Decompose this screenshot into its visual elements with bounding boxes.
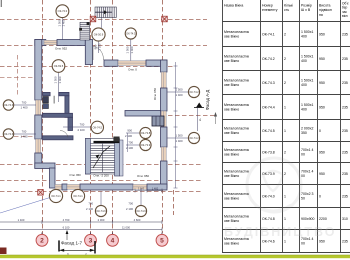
svg-text:5: 5 [160,238,164,245]
svg-text:2 100: 2 100 [86,207,93,211]
svg-text:1 400: 1 400 [130,46,134,53]
svg-text:1: 1 [284,239,286,243]
svg-text:Фасад 1-7: Фасад 1-7 [61,240,83,245]
svg-text:2 100: 2 100 [98,43,102,50]
svg-text:ОК-74.6: ОК-74.6 [4,103,14,107]
interior wall wc2 right [68,117,73,130]
svg-text:Отм. 950: Отм. 950 [137,174,149,178]
svg-text:ове Вікно: ове Вікно [224,197,239,201]
svg-text:4: 4 [199,118,201,122]
svg-text:950: 950 [319,150,325,154]
svg-text:700х1 4: 700х1 4 [301,170,314,174]
svg-text:11 000: 11 000 [122,225,131,229]
svg-text:ОК-74.8: ОК-74.8 [262,217,275,221]
lower-left vertical wall [50,168,56,188]
interior wall wc door-left [43,92,50,95]
svg-text:4: 4 [111,238,115,245]
svg-text:310: 310 [342,217,348,221]
svg-text:1: 1 [284,129,286,133]
bottom wall right [147,184,167,190]
column marker bottom-left [38,190,44,196]
stair arrow [93,152,103,168]
window bottom 1b [67,185,80,190]
svg-text:1 500: 1 500 [176,134,183,138]
svg-text:Кількі: Кількі [284,4,293,8]
svg-text:2: 2 [284,150,286,154]
partial grid line [17,55,19,95]
svg-text:950: 950 [319,239,325,243]
svg-text:700: 700 [80,123,85,127]
svg-text:00: 00 [301,153,305,157]
lower-left corner wall [35,163,55,169]
svg-text:ОК-74.2: ОК-74.2 [189,90,199,94]
svg-text:ОК-74.6: ОК-74.6 [96,209,106,213]
top wall left segment [57,40,85,46]
svg-text:900х900: 900х900 [301,217,314,221]
short dashed vertical [173,190,175,215]
svg-text:ня: ня [319,13,323,17]
svg-text:235: 235 [342,81,348,85]
window tag T4 [52,60,65,73]
window tag T6 [3,129,13,139]
svg-text:вікн: вікн [342,14,348,18]
svg-text:ОК-74.0: ОК-74.0 [262,194,275,198]
svg-text:ове Вікно: ове Вікно [224,83,239,87]
svg-text:6 100: 6 100 [63,225,70,229]
svg-text:2 000х2: 2 000х2 [301,127,314,131]
window tag T5 [3,100,13,110]
svg-text:Висота: Висота [319,4,331,8]
top-left corner wall [35,40,46,46]
leader texts [21,19,183,211]
svg-text:елементу: елементу [262,8,278,12]
svg-text:950: 950 [319,172,325,176]
svg-text:700: 700 [128,202,133,206]
svg-text:Металопластик: Металопластик [224,192,250,196]
svg-text:1: 1 [284,194,286,198]
door swing wc [60,130,68,137]
window tag T15 [135,205,146,216]
svg-text:1: 1 [284,105,286,109]
top-mid wall segment a [104,60,118,66]
interior wall wc top [43,113,73,117]
svg-text:ове Вікно: ове Вікно [224,108,239,112]
column marker top-mid [90,16,96,22]
bottom wall pier [62,184,67,190]
svg-text:700х1 4: 700х1 4 [301,148,314,152]
svg-text:1 500: 1 500 [53,76,57,83]
svg-text:2 100: 2 100 [126,146,133,150]
interior wall wc right [65,96,69,118]
leader T6 [14,133,37,135]
svg-text:2200: 2200 [319,217,327,221]
svg-text:Отм. -2 200: Отм. -2 200 [93,174,109,178]
leader T4 [58,72,60,102]
svg-text:ОК-74.3: ОК-74.3 [58,9,68,13]
svg-text:0: 0 [319,129,321,133]
grid line axis 3 [90,0,92,234]
svg-text:235: 235 [342,172,348,176]
window tag T9 [140,139,151,150]
svg-text:ОК-74.9: ОК-74.9 [136,209,146,213]
svg-text:ОК-74.6: ОК-74.6 [262,239,275,243]
leader T9 [126,144,140,146]
svg-text:2 100: 2 100 [126,207,133,211]
stair rail line [101,18,103,29]
watermark emblem [247,158,301,212]
svg-text:підвікон: підвікон [319,8,332,12]
window tag T10 [188,86,199,97]
leader T10 [167,91,189,93]
svg-text:Металопластик: Металопластик [224,30,250,34]
svg-text:235: 235 [342,150,348,154]
svg-text:1 400: 1 400 [21,135,28,139]
leader T2 [98,41,100,53]
svg-text:350: 350 [301,131,307,135]
svg-text:2: 2 [40,238,44,245]
wc fixtures [43,97,49,104]
svg-text:ОК-74.2: ОК-74.2 [189,136,199,140]
door leaf wc [53,96,55,104]
svg-text:Металопластик: Металопластик [224,215,250,219]
svg-text:1 400: 1 400 [18,218,25,222]
window top-mid [118,61,146,66]
svg-text:2 100: 2 100 [78,128,85,132]
window tag T1 [56,5,69,18]
grid line axis 2 [42,0,44,234]
svg-text:ове Вікно: ове Вікно [224,35,239,39]
svg-text:1 400: 1 400 [58,76,62,83]
svg-text:400: 400 [301,35,307,39]
svg-text:ОК-74.3: ОК-74.3 [262,81,275,85]
door swing hall [93,47,104,61]
grid line row A [0,19,207,21]
svg-text:950: 950 [319,81,325,85]
leader T15 [140,188,142,206]
window top-left W1 [44,40,57,44]
svg-text:400: 400 [301,59,307,63]
svg-text:ОК-73.9: ОК-73.9 [141,143,151,147]
svg-text:235: 235 [342,32,348,36]
svg-text:50: 50 [301,197,305,201]
svg-text:1 500х1: 1 500х1 [301,103,314,107]
stair flight top (porch) [95,7,116,18]
svg-text:700х2 3: 700х2 3 [301,192,314,196]
corner mark [0,248,7,255]
svg-text:2: 2 [284,81,286,85]
svg-text:ОК-74.5: ОК-74.5 [93,125,103,129]
grid axis lines [0,0,215,234]
flue block [152,116,164,126]
svg-text:950: 950 [319,105,325,109]
leader T11 [167,137,189,139]
svg-text:700: 700 [128,141,133,145]
diagonal leader [0,198,50,214]
svg-text:ОК-74.5: ОК-74.5 [262,129,275,133]
svg-text:1 400: 1 400 [62,19,66,26]
window tag T14 [95,205,106,216]
svg-text:1 500х1: 1 500х1 [301,30,314,34]
left wall seg1 [35,40,42,101]
grid line partial [0,136,35,138]
grid line row B [0,45,207,47]
right wall seg4 [161,161,168,188]
svg-text:ове Вікно: ове Вікно [224,131,239,135]
bottom dimension lines [0,220,162,237]
svg-text:Ш х В: Ш х В [301,8,311,12]
grid line axis 5 [162,0,164,233]
svg-text:4 700: 4 700 [63,218,70,222]
window tag T11 [188,132,199,143]
window tag T13 [71,189,84,202]
svg-text:900: 900 [93,44,97,49]
svg-text:Отм. 950: Отм. 950 [69,173,81,177]
left wall seg3 [35,153,42,168]
svg-text:00: 00 [301,242,305,246]
svg-text:950: 950 [319,32,325,36]
column marker top-right [162,16,168,22]
svg-text:1 500х1: 1 500х1 [301,55,314,59]
svg-text:Металопластик: Металопластик [224,127,250,131]
svg-text:Отм. 950: Отм. 950 [153,88,157,100]
svg-text:Металопластик: Металопластик [224,55,250,59]
small dim line bottom-right [135,189,162,193]
svg-text:400: 400 [301,108,307,112]
right wall seg3 [161,127,168,147]
svg-text:ОК-50.9: ОК-50.9 [94,32,104,36]
bottom wall mid [80,184,133,190]
svg-text:2 100: 2 100 [125,134,132,138]
svg-text:900: 900 [127,129,132,133]
stair top black edge [94,141,120,143]
svg-text:ове Вікно: ове Вікно [224,242,239,246]
grid line row F [0,180,202,182]
svg-text:235: 235 [342,239,348,243]
window tag T2 [92,28,105,41]
leader T8 [126,132,140,134]
grid line row C [0,66,175,68]
svg-text:3: 3 [89,238,93,245]
interior wall wc bottom [43,136,74,140]
window right 2 [161,111,166,127]
window left 2 [36,139,41,153]
window tag T8 [140,127,151,138]
svg-text:Отм. 0: Отм. 0 [128,68,137,72]
svg-text:700: 700 [22,101,27,105]
svg-text:235: 235 [342,129,348,133]
green separator bar [0,255,350,258]
svg-text:1 400: 1 400 [21,106,28,110]
svg-text:ОК-74.5: ОК-74.5 [126,31,136,35]
leader T5 [14,104,37,106]
svg-text:ове Вікно: ове Вікно [224,174,239,178]
grid line row D [140,115,215,117]
svg-text:сть: сть [284,8,289,12]
svg-text:Металопластик: Металопластик [224,103,250,107]
svg-text:1 500х1: 1 500х1 [301,79,314,83]
svg-text:ОК-73.8: ОК-73.8 [141,131,151,135]
right wall seg2 [161,88,168,111]
svg-text:Металопластик: Металопластик [224,148,250,152]
svg-text:ОК-74.6: ОК-74.6 [4,132,14,136]
window bottom 2 [133,185,147,190]
svg-text:2: 2 [284,172,286,176]
svg-text:1 400: 1 400 [176,93,183,97]
svg-text:ОК-74.1: ОК-74.1 [73,194,83,198]
vertical wall at stair hall [85,40,92,65]
svg-text:4 600: 4 600 [134,218,141,222]
grid line axis 4 [112,0,114,234]
svg-text:ОК-73.8: ОК-73.8 [262,150,275,154]
svg-text:Фасад А-Д: Фасад А-Д [205,90,210,111]
svg-text:235: 235 [342,105,348,109]
svg-text:Розмір: Розмір [301,4,312,8]
svg-text:235: 235 [342,194,348,198]
svg-text:ОК-69.5: ОК-69.5 [54,64,64,68]
svg-text:700: 700 [22,130,27,134]
leader T1 [61,18,63,40]
svg-text:00: 00 [301,174,305,178]
svg-text:0: 0 [319,194,321,198]
window schedule table [222,0,350,253]
svg-text:ове Вікно: ове Вікно [224,219,239,223]
grid line row E [0,164,202,166]
svg-text:Металопластик: Металопластик [224,170,250,174]
svg-text:ОК-74.2: ОК-74.2 [262,57,275,61]
leader T7 [63,126,91,128]
svg-text:1 100: 1 100 [138,187,145,190]
svg-text:ове Вікно: ове Вікно [224,59,239,63]
svg-text:1 500: 1 500 [126,46,130,53]
window tag T7 [91,121,103,133]
svg-text:950: 950 [319,57,325,61]
left wall seg2 [35,115,42,139]
window right 3 [161,147,166,161]
window left 1 [36,100,41,115]
svg-text:235: 235 [342,57,348,61]
svg-text:700: 700 [88,202,93,206]
svg-text:2: 2 [284,57,286,61]
interior wall wc door-right [59,92,69,95]
window bottom 1a [55,185,62,190]
svg-text:Металопластик: Металопластик [224,79,250,83]
svg-text:Номер: Номер [262,4,273,8]
top-left tick [0,0,2,7]
svg-text:2: 2 [284,32,286,36]
svg-text:БУДІВНИЦТВО: БУДІВНИЦТВО [224,225,336,239]
right dim chain [128,62,178,188]
svg-text:ОК-74.4: ОК-74.4 [262,105,275,109]
grid line partial 2 [0,77,35,79]
main staircase [85,137,123,177]
svg-text:2 300: 2 300 [98,218,105,222]
svg-text:ове Вікно: ове Вікно [224,153,239,157]
axis bubbles [36,234,48,246]
svg-text:1 400: 1 400 [176,139,183,143]
stair flight B (side steps) [79,22,89,40]
leader T3 [130,39,132,61]
interior wall right room [125,111,161,117]
window tag T12 [49,189,62,202]
top-mid wall segment b [146,60,167,66]
svg-text:Отм. 952: Отм. 952 [55,47,67,51]
leader T14 [100,192,102,206]
window tag T3 [125,28,136,39]
svg-text:1: 1 [284,217,286,221]
grid line row G [0,191,202,193]
svg-text:Назва Вікна: Назва Вікна [224,4,243,8]
svg-text:400: 400 [301,83,307,87]
right wall seg1 [161,60,168,72]
window right 1 [161,72,166,88]
svg-text:1 400: 1 400 [152,187,159,190]
svg-text:ОК-74.1: ОК-74.1 [262,32,275,36]
facade 1-7 annotation [59,230,95,254]
svg-text:ОК-74.1: ОК-74.1 [51,194,61,198]
